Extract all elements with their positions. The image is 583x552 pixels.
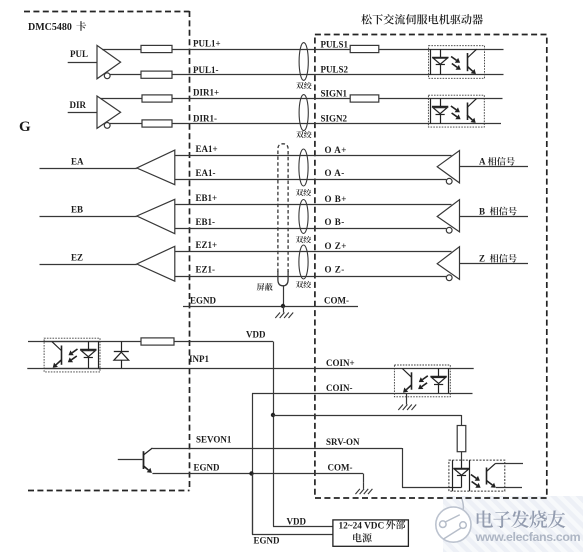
wire EZ1-	[175, 276, 447, 278]
resistor R6 (SIGN1)	[350, 95, 379, 102]
wire resistor to optocoupler	[461, 452, 463, 460]
label EB1-	[196, 217, 216, 227]
twisted pair symbol (encoder pair 1)	[299, 149, 308, 186]
wire EZ input	[40, 264, 137, 266]
svg-text:EB1-: EB1-	[196, 217, 216, 227]
svg-text:VDD: VDD	[246, 330, 266, 340]
svg-text:O A+: O A+	[325, 145, 347, 155]
svg-text:B: B	[479, 207, 485, 217]
wire VDD vertical	[273, 342, 275, 527]
wire PUL1+ to driver box	[172, 49, 429, 51]
optocoupler U3 (PULS)	[429, 46, 504, 79]
label EZ1+	[196, 240, 218, 250]
twisted pair symbol (DIR pair)	[299, 95, 308, 131]
wire DIR1+	[101, 98, 142, 100]
svg-text:INP1: INP1	[189, 354, 209, 364]
label EGND (mid)	[190, 296, 217, 306]
wire shield to EGND	[283, 286, 285, 306]
svg-text:EB: EB	[71, 205, 83, 215]
label COM- (lower)	[328, 463, 353, 473]
label EA1-	[196, 168, 216, 178]
svg-text:COIN+: COIN+	[326, 358, 355, 368]
resistor R7 (VDD)	[141, 338, 174, 345]
ground (COM-)	[355, 483, 372, 494]
twisted pair symbol (PUL pair)	[299, 43, 308, 81]
label shuangjiao twisted (encoder pair 3)	[296, 281, 311, 288]
wire PUL1- to driver box	[172, 74, 429, 76]
wire COM- down to ground	[363, 474, 365, 483]
label EA	[71, 157, 84, 167]
wire VDD bottom to power box	[273, 526, 333, 528]
optocoupler U4 (SIGN)	[428, 95, 502, 127]
label SIGN2	[321, 114, 348, 124]
wire PUL1-	[110, 74, 141, 76]
twisted pair symbol (encoder pair 3)	[299, 245, 308, 279]
wire COIN- vertical down	[252, 393, 254, 534]
svg-text:EZ1+: EZ1+	[196, 240, 218, 250]
label SRV-ON	[326, 437, 360, 447]
twisted pair symbol (encoder pair 2)	[299, 200, 308, 234]
label PUL	[70, 49, 88, 59]
svg-text:SEVON1: SEVON1	[196, 435, 232, 445]
label 12-24 VDC external power	[339, 520, 406, 542]
svg-text:PUL: PUL	[70, 49, 88, 59]
wire SEVON1 / SRV-ON	[152, 448, 402, 450]
wire EB1-	[175, 228, 447, 230]
output driver (Z phase)	[437, 247, 459, 281]
label PUL1-	[193, 65, 219, 75]
DMC5480 card dashed box	[24, 11, 190, 491]
transistor Q1	[143, 448, 152, 473]
svg-text:SIGN1: SIGN1	[321, 89, 348, 99]
label Z phase signal	[479, 254, 517, 264]
svg-text:PULS1: PULS1	[321, 40, 349, 50]
svg-text:PULS2: PULS2	[321, 65, 349, 75]
watermark text 电子发烧友	[477, 510, 566, 528]
label B phase signal	[479, 207, 517, 217]
svg-text:EZ: EZ	[71, 253, 83, 263]
wire B phase output	[460, 216, 529, 218]
label EGND (transistor)	[194, 463, 221, 473]
wire DIR input	[68, 112, 97, 114]
svg-text:DIR1-: DIR1-	[193, 114, 217, 124]
svg-text:O Z+: O Z+	[325, 241, 347, 251]
line receiver (EB)	[137, 199, 175, 233]
line driver U2 (DIR)	[97, 96, 121, 128]
ground (shield)	[275, 306, 293, 318]
watermark url www.elecfans.com	[475, 530, 581, 544]
wire EB input	[40, 216, 137, 218]
wire EA1-	[175, 179, 447, 181]
svg-text:EA: EA	[71, 157, 84, 167]
svg-text:EZ1-: EZ1-	[196, 265, 216, 275]
line driver U1 (PUL)	[97, 45, 121, 78]
label EGND (bottom)	[254, 536, 281, 546]
wire VDD branch to resistor	[273, 415, 462, 417]
svg-text:COIN-: COIN-	[326, 383, 353, 393]
label PULS1	[321, 40, 349, 50]
svg-text:Z: Z	[479, 254, 485, 264]
svg-text:DIR: DIR	[70, 100, 87, 110]
label DMC5480 card	[28, 21, 86, 33]
resistor R8 (vertical)	[457, 426, 466, 452]
wire EA input	[40, 168, 137, 170]
wire EA1+	[175, 155, 452, 157]
wire COIN emitter to ground	[406, 393, 408, 398]
label SIGN1	[321, 89, 348, 99]
wire DIR1- to driver box	[172, 123, 428, 125]
svg-text:DIR1+: DIR1+	[193, 88, 219, 98]
svg-text:PUL1-: PUL1-	[193, 65, 219, 75]
output driver (B phase)	[437, 200, 459, 234]
svg-text:EA1-: EA1-	[196, 168, 216, 178]
wire INP1 to COIN+	[100, 368, 394, 370]
svg-text:SRV-ON: SRV-ON	[326, 437, 360, 447]
label VDD	[246, 330, 266, 340]
svg-text:O Z-: O Z-	[325, 265, 345, 275]
svg-text:EGND: EGND	[190, 296, 217, 306]
wire DIR1+ to driver box	[172, 98, 428, 100]
svg-text:EB1+: EB1+	[196, 193, 218, 203]
wire EB1+	[175, 204, 452, 206]
svg-text:G: G	[19, 119, 31, 135]
label OA-	[325, 168, 345, 178]
wire EGND / COM- (mid)	[183, 306, 358, 308]
junction shield/EGND	[281, 304, 285, 308]
Panasonic AC servo driver dashed box	[315, 35, 547, 499]
label shuangjiao twisted (PUL pair)	[296, 82, 311, 89]
label COIN-	[326, 383, 353, 393]
resistor R2	[141, 71, 172, 78]
wire EGND vertical	[252, 474, 254, 535]
svg-text:EGND: EGND	[194, 463, 221, 473]
wire EZ1+	[175, 251, 452, 253]
wire PUL input	[68, 62, 97, 64]
label SEVON1	[196, 435, 232, 445]
label OB-	[325, 217, 345, 227]
shield symbol (dashed loop)	[278, 144, 288, 286]
optocoupler U7 (SRV-ON)	[449, 460, 523, 491]
label PULS2	[321, 65, 349, 75]
wire VDD to corner	[174, 341, 273, 343]
svg-text:DMC5480: DMC5480	[28, 22, 72, 33]
svg-text:12~24 VDC: 12~24 VDC	[339, 522, 385, 532]
label EZ	[71, 253, 83, 263]
svg-text:COM-: COM-	[324, 296, 349, 306]
optocoupler U6 (COIN)	[394, 365, 473, 397]
label PUL1+	[193, 39, 221, 49]
label OZ+	[325, 241, 347, 251]
label OA+	[325, 145, 347, 155]
label A phase signal	[479, 157, 515, 167]
title Panasonic AC servo motor driver	[361, 14, 483, 24]
external power supply box 12-24 VDC	[333, 520, 409, 546]
wire base input	[118, 459, 143, 461]
svg-text:O B+: O B+	[325, 194, 347, 204]
svg-text:SIGN2: SIGN2	[321, 114, 348, 124]
label EB	[71, 205, 83, 215]
wire VDD stub left	[28, 341, 45, 343]
resistor R3	[142, 95, 172, 102]
svg-text:COM-: COM-	[328, 463, 353, 473]
node G	[19, 119, 31, 135]
label pingbi shield	[257, 283, 273, 291]
resistor R5 (PULS1)	[350, 45, 379, 52]
svg-text:EGND: EGND	[254, 536, 281, 546]
label shuangjiao twisted (DIR pair)	[296, 131, 311, 138]
wire INP1 stub left	[27, 368, 45, 370]
svg-text:PUL1+: PUL1+	[193, 39, 221, 49]
label OZ-	[325, 265, 345, 275]
svg-text:A: A	[479, 157, 486, 167]
label EB1+	[196, 193, 218, 203]
svg-text:EA1+: EA1+	[196, 144, 218, 154]
ground (COIN)	[398, 398, 416, 410]
svg-text:VDD: VDD	[287, 517, 307, 527]
label DIR1-	[193, 114, 217, 124]
wire SRV-ON to optocoupler	[402, 487, 449, 489]
resistor R4	[142, 120, 172, 127]
resistor R1	[141, 45, 172, 52]
label OB+	[325, 194, 347, 204]
wire A phase output	[460, 166, 529, 168]
label shuangjiao twisted (encoder pair 1)	[296, 189, 311, 196]
wire PUL1+	[102, 49, 141, 51]
svg-text:O B-: O B-	[325, 217, 345, 227]
diode D1	[114, 342, 129, 369]
output driver (A phase)	[437, 151, 459, 185]
label DIR	[70, 100, 87, 110]
wire EGND (transistor emitter)	[152, 473, 363, 475]
label COM- (mid)	[324, 296, 349, 306]
watermark logo circle	[436, 498, 471, 543]
wire EGND bottom to power box	[252, 534, 333, 536]
line receiver (EA)	[137, 150, 175, 185]
label DIR1+	[193, 88, 219, 98]
label shuangjiao twisted (encoder pair 2)	[296, 236, 311, 243]
junction EGND	[249, 471, 253, 475]
label EA1+	[196, 144, 218, 154]
wire VDD top	[100, 341, 141, 343]
wire Z phase output	[460, 263, 529, 265]
wire DIR1-	[110, 123, 142, 125]
svg-text:www.elecfans.com: www.elecfans.com	[475, 530, 581, 544]
wire SRV-ON vertical	[402, 448, 404, 488]
optocoupler U5 (INP1)	[44, 338, 100, 372]
line receiver (EZ)	[137, 246, 175, 281]
watermark background stripes	[258, 386, 583, 552]
label EZ1-	[196, 265, 216, 275]
junction VDD branch	[271, 413, 275, 417]
label INP1	[189, 354, 209, 364]
label COIN+	[326, 358, 355, 368]
wire COIN-	[252, 393, 394, 395]
svg-text:O A-: O A-	[325, 168, 345, 178]
label VDD (bottom)	[287, 517, 307, 527]
